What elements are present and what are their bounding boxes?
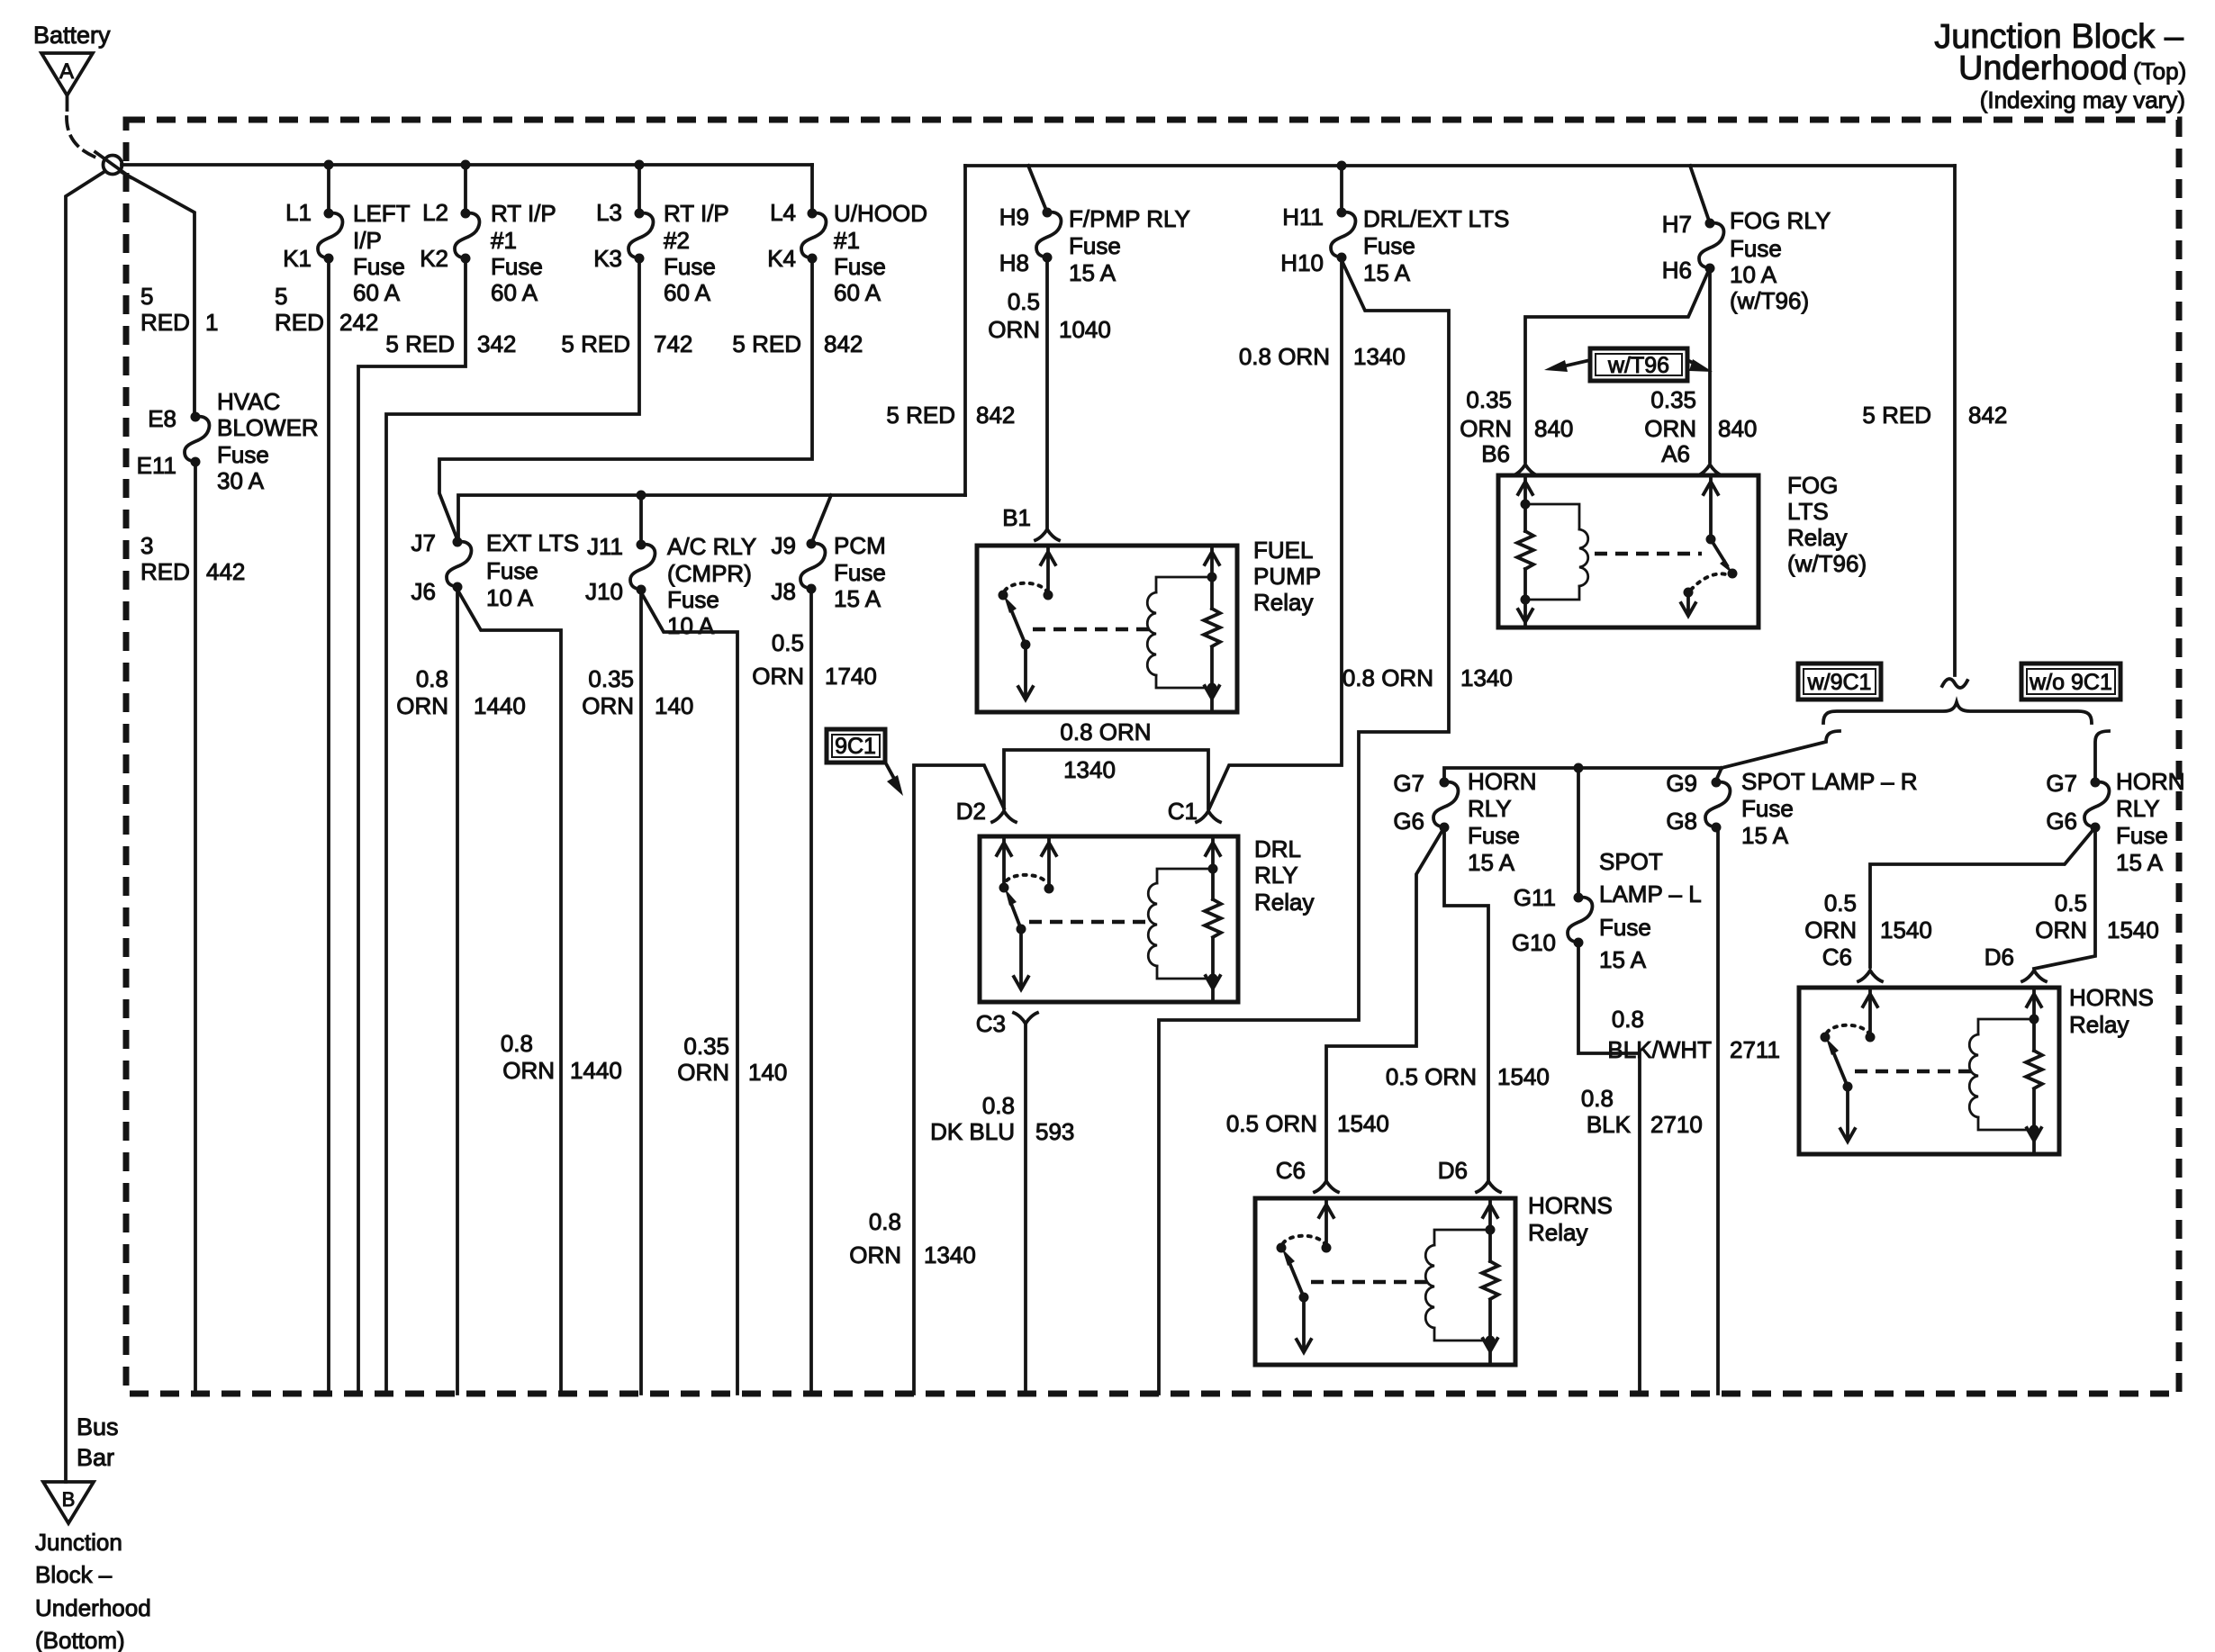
svg-text:LEFT: LEFT [353,200,411,227]
junction node H11 [1337,161,1347,171]
svg-text:SPOT LAMP – R: SPOT LAMP – R [1741,768,1918,795]
label 5 RED 342 [385,330,516,357]
svg-text:(Top): (Top) [2133,58,2186,85]
svg-text:(Bottom): (Bottom) [35,1627,125,1652]
fuse J9/J8 PCM 15A [800,539,825,594]
wire G6 right to D6 right [2034,827,2095,969]
label L2 K2 [420,199,448,272]
svg-text:60 A: 60 A [491,279,538,306]
svg-text:G6: G6 [2046,808,2077,835]
svg-text:0.8: 0.8 [1581,1085,1614,1112]
label 0.8 ORN bracket [1060,718,1151,783]
connector caret C6 right [1858,970,1882,981]
svg-text:5 RED: 5 RED [1862,402,1931,429]
relay HORNS left [1255,1198,1515,1365]
svg-text:RED: RED [140,309,190,336]
wire 342 down with jog left [358,165,466,1394]
svg-text:Block –: Block – [35,1561,113,1588]
bus junction node [461,160,471,170]
svg-text:15 A: 15 A [2116,849,2164,876]
svg-text:(CMPR): (CMPR) [667,560,752,587]
label 0.8 BLK 2710 [1581,1085,1703,1138]
wire 5 RED 842 right drop [1953,166,1957,675]
label A6 [1661,440,1690,467]
relay DRL RLY [980,836,1238,1002]
fuse J7/J6 EXT LTS 10A [447,537,471,592]
svg-text:15 A: 15 A [1468,849,1515,876]
label J7 J6 [411,529,436,605]
label A/C RLY (CMPR) Fuse 10 A [667,533,756,639]
svg-text:HVAC: HVAC [217,388,280,415]
label 5 RED 842 riser [886,402,1015,429]
svg-text:RED: RED [275,309,324,336]
wire: splice to battery line down-left [66,171,105,1482]
svg-text:2710: 2710 [1650,1111,1703,1138]
svg-text:1340: 1340 [1063,756,1116,783]
svg-text:0.35: 0.35 [1650,386,1696,413]
wire 2711 from G8 [1716,827,1720,1394]
label 0.8 ORN 1440 second [501,1030,622,1084]
wire branch H10 via 1609/1509 to bottom exit [1159,260,1449,1394]
svg-text:U/HOOD: U/HOOD [834,200,927,227]
label 0.5 ORN 1040 [988,288,1111,343]
svg-text:1740: 1740 [825,663,877,690]
wire bus to H11 [1340,166,1343,212]
svg-text:H9: H9 [999,203,1029,230]
svg-text:15 A: 15 A [1363,259,1411,286]
junction block dashed border [126,120,2179,1394]
wire feed G11 [1577,768,1580,898]
label G11 G10 [1512,884,1556,956]
svg-text:C6: C6 [1276,1157,1306,1184]
label 0.5 ORN 1740 [752,629,877,690]
svg-text:1540: 1540 [1337,1110,1389,1137]
label 0.35 ORN 840 right [1644,386,1757,442]
wire 442 down from E11 [194,462,197,1394]
label HORNS Relay left [1528,1192,1613,1246]
svg-text:H10: H10 [1280,249,1324,276]
svg-text:J9: J9 [772,532,796,559]
battery label [33,22,111,49]
svg-text:G6: G6 [1393,808,1424,835]
svg-text:1340: 1340 [1460,664,1513,691]
svg-text:Fuse: Fuse [834,253,886,280]
svg-text:5: 5 [275,283,287,310]
label DRL/EXT LTS Fuse 15 A [1363,205,1509,286]
svg-text:0.5: 0.5 [2055,889,2087,916]
svg-text:RT I/P: RT I/P [664,200,729,227]
svg-text:15 A: 15 A [1069,259,1117,286]
svg-text:0.8: 0.8 [982,1092,1015,1119]
wire 742 down with jog left [386,165,639,1394]
label 0.8 ORN 1340 [1239,343,1406,370]
label HORNS Relay right [2069,984,2154,1038]
svg-text:Relay: Relay [1253,589,1313,616]
w/T96 right arrow [1687,360,1691,362]
fuse L4/K4 U/HOOD #1 60A [801,209,826,264]
svg-text:0.35: 0.35 [683,1033,729,1060]
wire option rail y=853 (w/9C1) [1444,768,1722,782]
label 0.35 ORN 140 [582,665,693,719]
option brace [1823,702,2092,723]
label HVAC BLOWER Fuse 30 A [217,388,319,494]
wire break squiggle [1942,679,1967,688]
fuse G7/G6 HORN RLY 15A right [2084,778,2109,833]
svg-text:0.8: 0.8 [869,1208,901,1235]
svg-text:E11: E11 [137,452,176,479]
svg-text:L1: L1 [285,199,312,226]
svg-text:Fuse: Fuse [491,253,543,280]
label H11 H10 [1280,203,1324,276]
wire 242 down [327,165,330,1394]
svg-text:K2: K2 [420,245,448,272]
svg-text:1340: 1340 [1353,343,1406,370]
hook left option [1722,731,1840,768]
svg-text:BLK/WHT: BLK/WHT [1607,1036,1712,1063]
label 5 RED 842 [732,330,863,357]
label 5 RED 742 [561,330,692,357]
svg-text:10 A: 10 A [486,584,534,611]
svg-text:HORNS: HORNS [1528,1192,1613,1219]
label PCM Fuse 15 A [834,532,886,612]
label HORN RLY Fuse 15 A right [2116,768,2185,876]
wire: splice to HVAC feeder [120,171,194,417]
svg-text:840: 840 [1718,415,1757,442]
svg-text:BLK: BLK [1587,1111,1632,1138]
label C6 left [1276,1157,1306,1184]
svg-text:H6: H6 [1662,257,1692,284]
svg-text:1040: 1040 [1059,316,1111,343]
label D6 right [1984,943,2014,970]
label LEFT I/P Fuse 60 A [353,200,411,306]
svg-text:L4: L4 [770,199,796,226]
svg-text:Underhood: Underhood [35,1594,151,1621]
svg-text:G10: G10 [1512,929,1556,956]
svg-text:Fuse: Fuse [1468,822,1520,849]
svg-text:5 RED: 5 RED [886,402,955,429]
9C1 arrow [887,765,898,785]
svg-text:1340: 1340 [924,1241,976,1268]
label G7 G6 left [1393,770,1424,835]
connector caret A6 [1698,465,1722,475]
svg-text:B1: B1 [1002,504,1031,531]
Junction Block - Underhood (Bottom) label [35,1529,151,1652]
svg-text:442: 442 [206,558,245,585]
svg-text:5 RED: 5 RED [732,330,801,357]
svg-text:Fuse: Fuse [834,559,886,586]
label 0.35 ORN 140 second [677,1033,787,1086]
label D6 left [1438,1157,1468,1184]
label FOG RLY Fuse 10 A (w/T96) [1730,207,1831,314]
svg-text:K1: K1 [283,245,312,272]
svg-text:A: A [59,59,74,84]
svg-text:15 A: 15 A [1741,822,1789,849]
label G7 G6 right [2046,770,2077,835]
svg-text:G7: G7 [2046,770,2077,797]
svg-text:1540: 1540 [2107,916,2159,943]
label FOG LTS Relay (w/T96) [1787,472,1867,577]
svg-text:FUEL: FUEL [1253,537,1313,564]
box w/9C1 [1798,664,1881,700]
fuse H11/H10 DRL/EXT LTS 15A [1331,208,1355,263]
svg-text:0.8: 0.8 [1612,1006,1644,1033]
label C3 [976,1010,1006,1037]
svg-text:D2: D2 [956,798,986,825]
connector caret D6 right [2022,970,2046,981]
wire slant bus to H7 [1690,166,1710,223]
svg-text:Fuse: Fuse [486,557,538,584]
svg-text:L2: L2 [422,199,448,226]
svg-text:J11: J11 [587,533,623,560]
label J9 J8 [772,532,796,605]
box 9C1 [827,729,885,763]
connector caret C1 [1197,811,1220,822]
label 0.5 ORN 1540 C6 left [1226,1110,1389,1137]
svg-text:Relay: Relay [1787,524,1847,551]
label DRL RLY Relay [1254,835,1314,916]
Bus Bar label [77,1413,119,1471]
svg-text:242: 242 [339,309,378,336]
svg-text:0.5: 0.5 [1824,889,1857,916]
svg-text:HORNS: HORNS [2069,984,2154,1011]
svg-text:Bar: Bar [77,1444,114,1471]
svg-text:L3: L3 [596,199,622,226]
bus wire segment 1 [122,163,812,167]
wire PCM feed slant from rail [811,495,831,544]
svg-text:RED: RED [140,558,190,585]
svg-text:5 RED: 5 RED [385,330,455,357]
label L1 K1 [283,199,312,272]
connector caret B6 [1514,465,1537,475]
svg-text:15 A: 15 A [834,585,881,612]
svg-text:PUMP: PUMP [1253,563,1321,590]
svg-text:Fuse: Fuse [1730,235,1782,262]
svg-text:PCM: PCM [834,532,886,559]
label 0.35 ORN 840 left [1460,386,1573,442]
label L4 K4 [767,199,796,272]
label C6 right [1822,943,1852,970]
label 3 RED 442 [140,532,245,585]
svg-text:ORN: ORN [988,316,1040,343]
relay HORNS right [1799,988,2059,1154]
svg-text:#1: #1 [491,227,517,254]
svg-text:J10: J10 [585,578,623,605]
svg-text:w/o 9C1: w/o 9C1 [2029,670,2112,695]
hook right option [2095,731,2109,782]
svg-text:0.35: 0.35 [588,665,634,692]
svg-text:ORN: ORN [1460,415,1512,442]
label HORN RLY Fuse 15 A left [1468,768,1537,876]
label SPOT LAMP - R Fuse 15 A [1741,768,1918,849]
svg-text:5 RED: 5 RED [561,330,630,357]
wire 1440 down from J6 [456,587,459,1394]
svg-text:Relay: Relay [2069,1011,2129,1038]
svg-text:G8: G8 [1666,808,1697,835]
svg-text:w/9C1: w/9C1 [1807,670,1872,695]
svg-text:I/P: I/P [353,227,382,254]
label F/PMP RLY Fuse 15 A [1069,205,1190,286]
svg-text:840: 840 [1534,415,1573,442]
svg-text:#2: #2 [664,227,690,254]
label B1 [1002,504,1031,531]
svg-text:HORN: HORN [2116,768,2185,795]
svg-text:9C1: 9C1 [835,734,876,759]
relay FOG LTS [1498,475,1758,627]
connector caret D6 left [1477,1181,1500,1192]
label D2 [956,798,986,825]
fuse E8/E11 HVAC BLOWER 30A [185,412,209,467]
label 0.5 ORN 1540 D6 left [1386,1063,1550,1090]
fuse H9/H8 F/PMP RLY 15A [1036,208,1061,263]
svg-text:Fuse: Fuse [1599,914,1651,941]
svg-text:Fuse: Fuse [1069,232,1121,259]
svg-text:0.5: 0.5 [772,629,804,656]
box w/T96 [1590,348,1687,381]
svg-text:842: 842 [824,330,863,357]
label 5 RED 1 [140,283,218,336]
svg-text:ORN: ORN [752,663,804,690]
connector triangle A [41,53,93,110]
svg-text:G7: G7 [1393,770,1424,797]
svg-text:RLY: RLY [1254,862,1298,889]
svg-text:842: 842 [1968,402,2007,429]
svg-text:ORN: ORN [502,1057,555,1084]
wire 140 branch right [641,592,737,1394]
svg-text:10 A: 10 A [667,612,715,639]
svg-text:3: 3 [140,532,153,559]
svg-text:#1: #1 [834,227,860,254]
svg-text:10 A: 10 A [1730,261,1777,288]
label 5 RED 842 right [1862,402,2007,429]
svg-text:60 A: 60 A [834,279,881,306]
label E8 E11 [137,405,176,479]
svg-text:140: 140 [655,692,693,719]
svg-text:A6: A6 [1661,440,1690,467]
wire H6 branch to B6 [1525,272,1708,462]
svg-text:ORN: ORN [2035,916,2087,943]
svg-text:Fuse: Fuse [664,253,716,280]
svg-text:1440: 1440 [570,1057,622,1084]
label 5 RED 242 [275,283,378,336]
label H7 H6 [1662,211,1692,284]
svg-text:C3: C3 [976,1010,1006,1037]
label 0.5 ORN 1540 D6 right [2035,889,2159,943]
wire A/C RLY feed from rail [639,495,643,545]
svg-text:ORN: ORN [1644,415,1696,442]
label 0.5 ORN 1540 C6 right [1804,889,1932,943]
label 0.8 BLK/WHT 2711 [1607,1006,1780,1063]
svg-text:RT I/P: RT I/P [491,200,556,227]
label G9 G8 [1666,770,1697,835]
svg-text:Underhood: Underhood [1958,50,2128,87]
svg-text:Bus: Bus [77,1413,119,1440]
label 0.8 ORN 1340 bottom [849,1208,976,1268]
connector caret B1 [1035,529,1059,540]
svg-text:DK BLU: DK BLU [930,1118,1015,1145]
connector caret C3 [1014,1013,1037,1024]
svg-text:D6: D6 [1438,1157,1468,1184]
svg-text:0.8 ORN: 0.8 ORN [1239,343,1330,370]
svg-text:J8: J8 [772,578,796,605]
bus wire segment 2 [965,164,1955,167]
svg-text:(w/T96): (w/T96) [1787,550,1867,577]
svg-text:LAMP – L: LAMP – L [1599,880,1702,907]
svg-text:D6: D6 [1984,943,2014,970]
label RT I/P #2 Fuse 60 A [664,200,729,306]
svg-text:Fuse: Fuse [1363,232,1415,259]
fuse G11/G10 SPOT LAMP-L 15A [1568,893,1592,948]
svg-text:Relay: Relay [1528,1219,1587,1246]
svg-text:Battery: Battery [33,22,111,49]
svg-text:C6: C6 [1822,943,1852,970]
box w/o 9C1 [2021,664,2120,700]
svg-text:RLY: RLY [1468,795,1512,822]
svg-text:LTS: LTS [1787,498,1829,525]
wire 2710 from G10 [1578,943,1640,1394]
svg-text:Fuse: Fuse [2116,822,2168,849]
svg-text:60 A: 60 A [664,279,711,306]
svg-text:30 A: 30 A [217,467,265,494]
svg-text:B6: B6 [1481,440,1510,467]
junction node G11 feed [1574,763,1584,773]
label H9 H8 [999,203,1029,276]
svg-text:0.8: 0.8 [501,1030,533,1057]
svg-text:ORN: ORN [582,692,634,719]
svg-text:ORN: ORN [849,1241,901,1268]
svg-text:0.5: 0.5 [1008,288,1040,315]
svg-text:593: 593 [1035,1118,1074,1145]
svg-text:DRL/EXT LTS: DRL/EXT LTS [1363,205,1509,232]
svg-text:ORN: ORN [1804,916,1857,943]
connector caret C6 left [1315,1181,1338,1192]
svg-text:BLOWER: BLOWER [217,414,319,441]
svg-text:0.8 ORN: 0.8 ORN [1343,664,1433,691]
label L3 K3 [593,199,622,272]
svg-text:Relay: Relay [1254,889,1314,916]
label SPOT LAMP - L Fuse 15 A [1599,848,1702,973]
connector triangle B [43,1482,94,1523]
svg-text:Fuse: Fuse [667,586,719,613]
label B6 [1481,440,1510,467]
wire H6 down to A6 [1708,268,1712,462]
wire G6 to D6 left [1444,827,1488,1181]
svg-text:J7: J7 [411,529,436,556]
svg-text:(w/T96): (w/T96) [1730,287,1809,314]
svg-text:DRL: DRL [1254,835,1301,862]
svg-text:A/C RLY: A/C RLY [667,533,756,560]
svg-text:742: 742 [654,330,692,357]
wire 1340 down from H10 to DRL relay rail [1209,257,1342,808]
label FUEL PUMP Relay [1253,537,1321,616]
svg-text:0.5 ORN: 0.5 ORN [1386,1063,1477,1090]
svg-text:w/T96: w/T96 [1607,353,1669,378]
svg-text:1540: 1540 [1880,916,1932,943]
svg-text:Fuse: Fuse [217,441,269,468]
svg-text:H8: H8 [999,249,1029,276]
svg-text:2711: 2711 [1730,1036,1780,1063]
wire 1040 from H8 to B1 [1045,257,1049,528]
wire 842 riser to bus segment 2 [963,166,967,495]
wire 593 down from C3 [1024,1024,1027,1394]
wire 842 from bus corner through K4 down and left [439,165,812,542]
svg-text:K3: K3 [593,245,622,272]
label EXT LTS Fuse 10 A [486,529,579,611]
svg-text:Fuse: Fuse [353,253,405,280]
splice circle node [104,156,122,175]
wire 1740 down from J8 [809,589,813,1394]
svg-text:FOG: FOG [1787,472,1838,499]
svg-text:F/PMP RLY: F/PMP RLY [1069,205,1190,232]
